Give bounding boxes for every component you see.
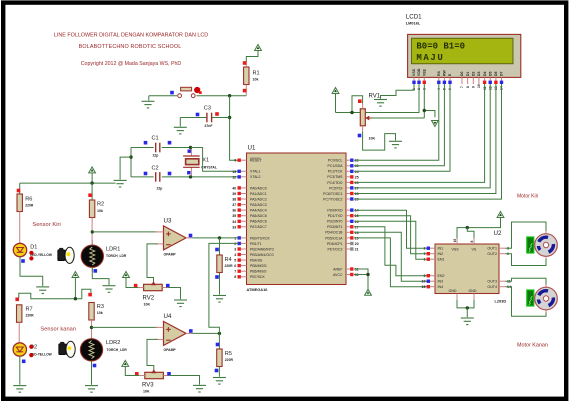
svg-text:OUT2: OUT2 [487, 252, 497, 256]
svg-text:VEE: VEE [423, 68, 427, 76]
wire R6 to D1 [19, 212, 21, 244]
svg-text:AREF: AREF [333, 267, 342, 271]
wire LDR1 junction to U3 +in [92, 231, 157, 233]
svg-text:PC5/TDI: PC5/TDI [329, 186, 342, 190]
svg-text:U1: U1 [248, 145, 256, 152]
svg-text:9: 9 [234, 159, 236, 163]
svg-text:PA3/ADC3: PA3/ADC3 [250, 203, 267, 207]
LCD1 screen [412, 38, 514, 64]
svg-text:B0=0 B1=0: B0=0 B1=0 [416, 41, 465, 51]
R1 bottom pin [245, 85, 247, 96]
U4 output pin [186, 332, 193, 334]
svg-text:C1: C1 [152, 136, 159, 142]
svg-text:LED-YELLOW: LED-YELLOW [30, 353, 53, 357]
svg-text:RS: RS [437, 70, 441, 76]
power symbol +5V (sensor kanan) [72, 272, 79, 278]
svg-text:10K: 10K [144, 303, 151, 307]
svg-text:PA2/ADC2: PA2/ADC2 [250, 197, 267, 201]
wire LDR1 to ground [92, 267, 109, 285]
wire U4 -in to RV3 wiper [147, 339, 158, 372]
svg-text:220R: 220R [225, 358, 234, 362]
svg-text:9: 9 [472, 86, 476, 88]
wire R5 to ground [218, 367, 220, 377]
svg-text:33: 33 [232, 225, 236, 229]
svg-text:9: 9 [424, 274, 426, 278]
svg-text:1: 1 [424, 258, 426, 262]
svg-text:21: 21 [355, 248, 359, 252]
svg-text:PD6/ICP1: PD6/ICP1 [327, 242, 343, 246]
junction VEE [423, 109, 426, 112]
svg-text:PA4/ADC4: PA4/ADC4 [250, 209, 267, 213]
wire PD0 to U2 IN1 [354, 210, 428, 248]
resistor R2 [91, 183, 93, 200]
svg-text:PA1/ADC1: PA1/ADC1 [250, 192, 267, 196]
svg-text:OUT4: OUT4 [487, 285, 497, 289]
svg-text:10k: 10k [97, 311, 103, 315]
resistor R3 [89, 303, 94, 321]
svg-text:ATMEGA16: ATMEGA16 [247, 287, 269, 292]
svg-text:IN2: IN2 [438, 252, 444, 256]
svg-text:39: 39 [232, 192, 236, 196]
svg-text:LDR1: LDR1 [106, 247, 120, 253]
torch (sensor kiri) [58, 247, 74, 263]
power symbol (VEE arrow down) [432, 121, 439, 127]
wire R7 to D2 [18, 322, 20, 343]
svg-text:R7: R7 [26, 307, 33, 313]
junction U2 supply [466, 226, 469, 229]
junction cap rail [129, 155, 132, 158]
op-amp U4 [164, 321, 187, 345]
capacitor C1 [131, 147, 154, 149]
wire U2 VS supply [467, 228, 474, 238]
svg-text:PD5/OC1A: PD5/OC1A [325, 236, 343, 240]
svg-text:Motor Kiri: Motor Kiri [517, 193, 538, 199]
resistor R4 [219, 238, 221, 255]
wire D1 to ground [20, 257, 43, 286]
svg-text:16: 16 [453, 239, 457, 243]
wire U2 OUT1 to motor kiri top [506, 222, 547, 248]
svg-text:6: 6 [507, 252, 509, 256]
D2 emission dots [29, 345, 33, 349]
svg-text:IN1: IN1 [438, 247, 444, 251]
wire LCD E to PC2 [354, 84, 450, 171]
wire button left to ground [149, 95, 177, 97]
svg-text:OUT1: OUT1 [487, 247, 497, 251]
U2 top pins VSS VS [456, 238, 458, 244]
svg-text:LM016L: LM016L [406, 21, 421, 26]
ground (C3) [174, 127, 187, 134]
resistor R5 [218, 333, 220, 349]
svg-text:LINE FOLLOWER DIGITAL DENGAN K: LINE FOLLOWER DIGITAL DENGAN KOMPARATOR … [54, 32, 208, 38]
wire PD1 to U2 IN2 [354, 216, 428, 254]
U3 input pins [156, 231, 164, 233]
ground (RV1) [389, 141, 402, 148]
junction reset net [228, 94, 231, 97]
svg-text:U4: U4 [164, 313, 172, 320]
LCD pins [413, 77, 415, 84]
resistor R1 [244, 67, 249, 85]
ground (R4) [213, 296, 226, 303]
motor kiri rpm display [527, 237, 534, 253]
wire LCD D4 to PC4 [354, 84, 485, 182]
svg-text:34: 34 [232, 220, 236, 224]
capacitor C2 [131, 176, 154, 178]
svg-text:D4: D4 [483, 71, 487, 76]
wire R2 to LDR1 [91, 218, 93, 246]
wire C1 to XTAL1 [191, 148, 239, 172]
svg-text:PC4/TDO: PC4/TDO [327, 181, 342, 185]
svg-text:PD7/OC2: PD7/OC2 [328, 247, 343, 251]
motor kanan rpm display [527, 290, 534, 306]
svg-text:PC7/TOSC2: PC7/TOSC2 [323, 197, 342, 201]
wire PD2 to U2 EN1 [354, 221, 428, 259]
junction U2 gnd [466, 306, 469, 309]
wire LCD RS to PC0 [354, 84, 439, 160]
wire U2 OUT2 to motor kiri bottom [506, 254, 547, 266]
svg-text:8: 8 [470, 241, 474, 243]
crystal X1 [190, 148, 192, 157]
svg-text:VDD: VDD [417, 68, 421, 76]
wire LCD RW to PC1 [354, 84, 444, 166]
wire reset vertical to U1 [230, 96, 239, 161]
motor driver U2 body [435, 244, 499, 294]
wire AREF/AVCC to +5V [354, 269, 368, 275]
svg-text:TORCH_LDR: TORCH_LDR [107, 348, 128, 352]
motor Motor Kanan [535, 285, 558, 313]
svg-text:U2: U2 [494, 230, 502, 237]
svg-text:C3: C3 [204, 106, 211, 112]
junction C3 [228, 116, 231, 119]
svg-text:PA6/ADC6: PA6/ADC6 [250, 220, 267, 224]
svg-text:5: 5 [234, 259, 236, 263]
U3 output pin [186, 237, 193, 239]
junction R2/LDR1 [91, 230, 94, 233]
svg-text:13: 13 [232, 170, 236, 174]
svg-text:PB6/MISO: PB6/MISO [250, 270, 267, 274]
svg-text:Copyright 2012 @ Mada Sanjaya: Copyright 2012 @ Mada Sanjaya WS, PhD [81, 61, 182, 67]
wire LDR2 junction to U4 +in [92, 326, 158, 328]
junction R3/LDR2 [90, 326, 93, 329]
D1 emission dots [29, 251, 33, 255]
U4 input pins [156, 326, 164, 328]
diode D1 LED-YELLOW [13, 243, 26, 256]
power symbol +5V (VDD rail) [335, 94, 337, 113]
svg-text:VSS: VSS [452, 247, 460, 251]
svg-text:22p: 22p [153, 154, 159, 158]
svg-text:TORCH_LDR: TORCH_LDR [106, 254, 127, 258]
power symbol +5V (R1 top) [246, 51, 258, 63]
svg-text:R1: R1 [253, 71, 260, 77]
svg-text:220R: 220R [225, 264, 234, 268]
ground (R5) [213, 378, 226, 385]
svg-text:7: 7 [424, 252, 426, 256]
svg-text:VSS: VSS [412, 68, 416, 76]
junction R5/PB1 [218, 332, 221, 335]
svg-text:RV3: RV3 [142, 383, 154, 389]
svg-text:Sensor kanan: Sensor kanan [40, 327, 76, 333]
wire LDR2 to ground [91, 361, 93, 385]
svg-text:PD2/INT0: PD2/INT0 [327, 220, 342, 224]
ground (LDR2) [85, 386, 98, 393]
diode D2 LED-YELLOW [13, 343, 26, 356]
wire LCD VDD to +5V rail [336, 84, 420, 113]
svg-text:PA5/ADC5: PA5/ADC5 [250, 214, 267, 218]
svg-text:R5: R5 [225, 351, 232, 357]
potentiometer RV3 [145, 372, 164, 378]
svg-text:PC0/SCL: PC0/SCL [328, 159, 343, 163]
svg-text:D1: D1 [466, 71, 470, 76]
svg-text:36: 36 [232, 209, 236, 213]
junction rail R2 [90, 181, 93, 184]
wire sensor kanan rail [19, 289, 91, 298]
svg-text:R4: R4 [225, 257, 232, 263]
wire junction to U1 PB1 [209, 243, 239, 333]
svg-text:40: 40 [232, 186, 236, 190]
power symbol +5V (AVCC) [365, 289, 372, 295]
svg-text:10K: 10K [369, 137, 376, 141]
ground (D1) [36, 287, 49, 294]
svg-text:IN4: IN4 [438, 285, 444, 289]
svg-text:IN3: IN3 [438, 280, 444, 284]
svg-text:R2: R2 [97, 202, 104, 208]
svg-text:PC2/TCK: PC2/TCK [328, 170, 343, 174]
op-amp U3 [164, 226, 187, 250]
svg-text:PB0/T0/XCK: PB0/T0/XCK [250, 236, 271, 240]
U2 bottom pins GND GND [456, 294, 458, 301]
svg-text:R6: R6 [25, 197, 32, 203]
svg-text:20: 20 [355, 242, 359, 246]
ground (RV2) [174, 300, 187, 307]
svg-text:OPAMP: OPAMP [164, 253, 177, 257]
svg-text:C2: C2 [152, 166, 159, 172]
ground (LDR1) [103, 286, 116, 293]
svg-text:PD4/OC1B: PD4/OC1B [325, 231, 343, 235]
svg-text:D2: D2 [472, 71, 476, 76]
wire C1/C2 left rail to ground [130, 148, 132, 177]
svg-text:XTAL2: XTAL2 [250, 175, 260, 179]
LDR2 TORCH_LDR [91, 334, 93, 339]
svg-text:38: 38 [232, 198, 236, 202]
wire LCD VSS to ground [381, 84, 415, 99]
wire RV2 right to ground [168, 288, 181, 300]
svg-text:8: 8 [466, 86, 470, 88]
power symbol +5V (RV3) [122, 360, 129, 366]
capacitor C3 [212, 117, 230, 119]
microcontroller U1 body [247, 153, 347, 285]
LCD1 body [408, 34, 521, 77]
svg-text:PD3/INT1: PD3/INT1 [327, 225, 342, 229]
wire VDD rail to RV1 top [352, 96, 363, 113]
svg-text:PA0/ADC0: PA0/ADC0 [250, 186, 267, 190]
svg-text:VS: VS [472, 247, 477, 251]
svg-text:D0: D0 [460, 71, 464, 76]
svg-text:L293D: L293D [495, 299, 507, 304]
wire PD4 to U2 IN3 [354, 232, 428, 281]
U2 left pins [430, 247, 436, 249]
junction VDD rail [350, 111, 353, 114]
potentiometer RV2 [144, 284, 163, 290]
svg-text:RV2: RV2 [143, 296, 155, 302]
svg-text:U3: U3 [164, 218, 172, 225]
wire VEE branch to arrow [424, 111, 435, 118]
ground (D2) [13, 386, 26, 393]
svg-text:7: 7 [460, 86, 464, 88]
junction AVCC [366, 273, 369, 276]
wire D2 to ground [19, 356, 21, 385]
svg-text:EN2: EN2 [438, 274, 445, 278]
svg-text:6: 6 [234, 264, 236, 268]
potentiometer RV1 [360, 109, 365, 126]
wire C3 to ground [179, 118, 181, 127]
svg-text:MAJU: MAJU [416, 53, 444, 63]
svg-text:PB7/SCK: PB7/SCK [250, 275, 265, 279]
LDR1 TORCH_LDR [91, 240, 93, 245]
R1 top pin [245, 62, 247, 67]
svg-text:7: 7 [234, 270, 236, 274]
resistor R6 [19, 183, 21, 194]
svg-text:PC1/SDA: PC1/SDA [328, 164, 344, 168]
wire reset net horizontal [197, 95, 247, 97]
svg-text:37: 37 [232, 203, 236, 207]
svg-text:OUT3: OUT3 [487, 280, 497, 284]
svg-text:15: 15 [422, 285, 426, 289]
torch (sensor kanan) [59, 341, 75, 357]
svg-text:XTAL1: XTAL1 [250, 170, 260, 174]
wire U4 out to junction [193, 332, 220, 334]
svg-text:PB5/MOSI: PB5/MOSI [250, 264, 267, 268]
svg-text:12: 12 [232, 175, 236, 179]
push button (reset) [178, 94, 182, 98]
U2 right pins [499, 247, 506, 249]
motor Motor Kiri [535, 231, 558, 259]
power symbol +5V (sensor kiri rail) [89, 167, 96, 173]
power symbol +5V (RV2) [123, 272, 130, 278]
svg-text:PB3/AIN1/OC0: PB3/AIN1/OC0 [250, 253, 274, 257]
svg-text:PB2/AIN0/INT2: PB2/AIN0/INT2 [250, 247, 274, 251]
ground (U2) [461, 318, 474, 325]
svg-text:X1: X1 [202, 158, 209, 164]
svg-text:PC3/TMS: PC3/TMS [327, 175, 343, 179]
resistor R7 [17, 305, 22, 323]
svg-text:PB1/T1: PB1/T1 [250, 242, 262, 246]
svg-text:LED-YELLOW: LED-YELLOW [30, 253, 53, 257]
wire LCD D7 to PC7 [354, 84, 502, 199]
svg-text:RW: RW [443, 70, 447, 76]
junction rail arrow [74, 297, 77, 300]
svg-text:10: 10 [477, 84, 481, 88]
svg-text:LCD1: LCD1 [406, 14, 422, 21]
wire U2 OUT4 to motor kanan bottom [506, 287, 547, 317]
wire U3 -in to RV2 wiper [147, 244, 158, 284]
svg-text:PA7/ADC7: PA7/ADC7 [250, 225, 267, 229]
svg-text:GND: GND [449, 289, 457, 293]
wire U2 VSS supply [457, 228, 467, 238]
wire sensor kiri top rail [20, 182, 116, 184]
svg-text:RV1: RV1 [369, 94, 381, 100]
svg-text:220R: 220R [26, 314, 35, 318]
junction R4 [218, 236, 221, 239]
svg-text:BOLABOTTECHNO ROBOTIC SCHOOL: BOLABOTTECHNO ROBOTIC SCHOOL [79, 44, 182, 50]
svg-text:D5: D5 [488, 71, 492, 76]
svg-text:10k: 10k [97, 209, 103, 213]
svg-text:3: 3 [234, 248, 236, 252]
wire RV3 right to ground [169, 376, 199, 385]
wire RV1 bottom to ground [363, 132, 396, 151]
svg-text:10K: 10K [143, 390, 150, 394]
svg-text:10: 10 [422, 280, 426, 284]
svg-text:16: 16 [355, 220, 359, 224]
svg-text:35: 35 [232, 214, 236, 218]
wire R4 to ground [219, 273, 221, 295]
svg-text:AVCC: AVCC [333, 273, 343, 277]
button actuator red dot [194, 87, 200, 93]
svg-text:D6: D6 [494, 71, 498, 76]
ground (RV3) [193, 385, 206, 392]
svg-text:GND: GND [469, 289, 477, 293]
svg-text:D1: D1 [30, 245, 37, 251]
svg-text:25: 25 [355, 175, 359, 179]
wire U2 OUT3 to motor kanan top [506, 278, 547, 287]
svg-text:R3: R3 [97, 304, 104, 310]
svg-text:22p: 22p [157, 187, 163, 191]
svg-text:PB4/SS: PB4/SS [250, 259, 263, 263]
wire PD5 to U2 IN4 [354, 238, 428, 287]
ground (crystal caps) [114, 180, 127, 187]
svg-text:D3: D3 [477, 71, 481, 76]
U1 left pins [241, 159, 247, 161]
wire LCD VEE to RV1 wiper [423, 84, 425, 118]
svg-text:220R: 220R [25, 204, 34, 208]
wire U2 GND [457, 300, 474, 308]
ground (LCD VSS) [374, 100, 387, 107]
wire LCD D6 to PC6 [354, 84, 496, 194]
wire LCD D5 to PC5 [354, 84, 490, 188]
junction crystal bottom [189, 175, 192, 178]
svg-text:Motor Kanan: Motor Kanan [517, 342, 548, 348]
wire PD3 to U2 EN2 [354, 227, 428, 276]
svg-text:PD0/RXD: PD0/RXD [327, 209, 343, 213]
svg-text:LDR2: LDR2 [106, 340, 120, 346]
wire U3 out to U1 PB0 [193, 237, 239, 239]
svg-text:OPAMP: OPAMP [164, 348, 177, 352]
svg-text:PC6/TOSC1: PC6/TOSC1 [323, 192, 342, 196]
svg-text:Sensor Kiri: Sensor Kiri [32, 222, 60, 228]
svg-text:CRYSTAL: CRYSTAL [201, 165, 217, 169]
power symbol +5V (U2) [497, 212, 504, 218]
svg-text:RESET: RESET [250, 159, 263, 163]
svg-text:8: 8 [234, 275, 236, 279]
svg-text:PD1/TXD: PD1/TXD [328, 214, 343, 218]
U1 right pins [346, 159, 350, 161]
wire R3 to LDR2 [91, 320, 93, 339]
svg-text:10k: 10k [253, 78, 259, 82]
svg-text:2: 2 [424, 247, 426, 251]
svg-text:EN1: EN1 [438, 258, 445, 262]
svg-text:4: 4 [234, 253, 236, 257]
svg-text:D7: D7 [500, 71, 504, 76]
RV1 wiper [365, 117, 372, 119]
junction crystal top [189, 146, 192, 149]
ground (button) [142, 101, 155, 108]
svg-text:47nF: 47nF [205, 124, 213, 128]
